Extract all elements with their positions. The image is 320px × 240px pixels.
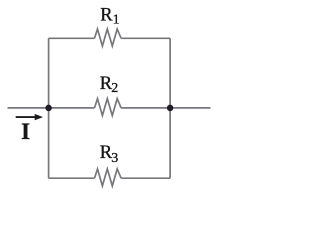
svg-text:3: 3 — [111, 151, 118, 166]
node: right junction — [167, 105, 174, 112]
wire: top branch left segment — [49, 37, 95, 39]
wire: bottom branch left segment — [49, 177, 95, 179]
wire: right vertical bus — [169, 38, 171, 178]
current arrow — [16, 114, 43, 120]
resistor R2 — [95, 99, 122, 116]
wire: current input lead (left) — [8, 107, 49, 109]
wire: middle branch right segment — [121, 107, 170, 109]
label R2 — [100, 74, 119, 96]
node: left junction — [45, 105, 52, 112]
wire: top branch right segment — [121, 37, 170, 39]
svg-text:I: I — [21, 119, 30, 144]
wire: bottom branch right segment — [121, 177, 170, 179]
wire: output lead (right) — [170, 107, 210, 109]
svg-text:1: 1 — [113, 12, 120, 27]
svg-text:2: 2 — [111, 81, 118, 96]
wire: middle branch left segment — [49, 107, 95, 109]
resistor R1 — [95, 29, 122, 46]
svg-text:R: R — [100, 6, 113, 26]
wire: left vertical bus — [48, 38, 50, 178]
label R3 — [100, 143, 118, 166]
label R1 — [100, 6, 119, 28]
resistor R3 — [95, 169, 122, 186]
